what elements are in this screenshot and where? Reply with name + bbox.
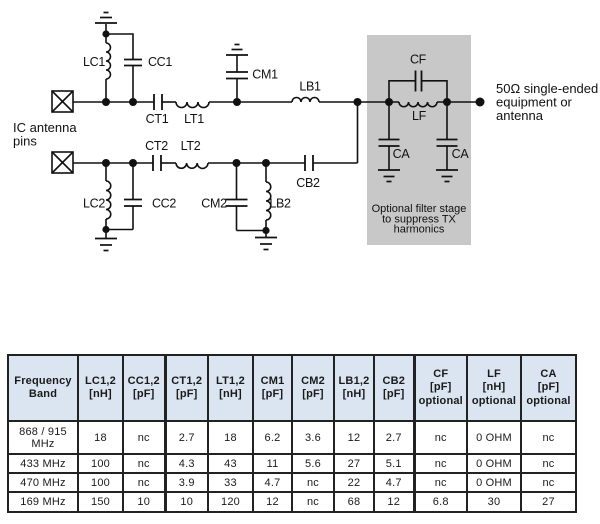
svg-text:CC1: CC1 [148, 55, 172, 69]
wire: upper rail CT1 to LT1 [162, 101, 176, 103]
wire: CF loop right [422, 81, 448, 102]
wire: LC1 top node to CC1 top [106, 34, 133, 60]
node: upper rail LC1 [102, 98, 110, 106]
node: LB2 bottom [262, 227, 269, 234]
wire: CB2 to riser [313, 162, 358, 164]
ground above CM1 [226, 45, 248, 56]
capacitor CA left branch [379, 102, 400, 170]
wire: upper rail LT1 to LB1 [209, 101, 292, 103]
inductor LT2 [176, 163, 208, 168]
inductor LC1 (with stems) [106, 24, 111, 102]
wire: CT2 to LT2 [161, 162, 176, 164]
ground below LB2 [255, 238, 277, 250]
svg-text:CB2: CB2 [296, 176, 320, 190]
svg-text:CC2: CC2 [152, 197, 176, 211]
node: upper rail riser [354, 98, 362, 106]
node: lower rail CM2 [233, 159, 241, 167]
node: LC1 top [102, 30, 109, 37]
ground below LC2 [95, 239, 117, 251]
svg-text:CA: CA [452, 147, 470, 161]
inductor LT1 [176, 102, 209, 108]
wire: lower rail from pin box to CT2 [73, 162, 153, 164]
ground below CA right [436, 170, 458, 182]
wire: CC1 bottom to upper rail [132, 66, 134, 103]
IC antenna pin box 1 [52, 91, 73, 112]
svg-text:CT2: CT2 [145, 139, 168, 153]
inductor LC2 branch [106, 163, 111, 239]
node: filter output [443, 98, 451, 106]
inductor LB2 branch [266, 163, 271, 238]
node: lower rail LC2 [102, 159, 110, 167]
svg-text:LT1: LT1 [184, 112, 204, 126]
capacitor CA right branch [437, 102, 458, 170]
wire: CF loop left [389, 81, 416, 102]
svg-text:pins: pins [13, 134, 37, 149]
svg-text:CA: CA [393, 147, 411, 161]
IC antenna pin box 2 [52, 152, 73, 173]
svg-text:CT1: CT1 [146, 112, 169, 126]
ground below CA left [378, 170, 400, 182]
node: upper rail CC1 [129, 98, 137, 106]
wire: upper rail LF to output terminal [437, 101, 480, 103]
svg-text:LB1: LB1 [299, 80, 321, 94]
node: LC2 bottom [102, 226, 109, 233]
node: upper rail CM1 [233, 98, 241, 106]
wire: CC2 bottom to LC2 bottom node [106, 229, 133, 231]
capacitor CM1 branch [226, 55, 248, 102]
capacitor CC1 [124, 60, 142, 66]
inductor LB1 [292, 98, 319, 103]
svg-text:CM2: CM2 [201, 197, 227, 211]
svg-text:CF: CF [410, 53, 427, 67]
wire: upper rail from pin box to CT1 [73, 101, 154, 103]
node: lower rail CC2 [129, 159, 137, 167]
wire: upper rail LB1 to LF [319, 101, 399, 103]
junction dots [102, 30, 485, 234]
inductor LF [399, 102, 437, 107]
capacitor CB2 [305, 155, 313, 171]
node: lower rail LB2 [262, 159, 270, 167]
svg-text:harmonics: harmonics [394, 224, 445, 236]
svg-text:LB2: LB2 [269, 197, 291, 211]
node: filter input [385, 98, 393, 106]
capacitor CM2 branch [226, 163, 248, 231]
capacitor CT2 [153, 155, 161, 171]
node: output terminal [476, 98, 485, 107]
wire: LT2 to CB2 [208, 162, 305, 164]
wire: riser from lower rail to upper rail [357, 102, 359, 163]
svg-text:antenna: antenna [496, 108, 544, 123]
capacitor CF [416, 71, 422, 92]
svg-text:LT2: LT2 [181, 139, 201, 153]
ground above LC1 [95, 13, 117, 24]
capacitor CT1 [154, 94, 162, 110]
svg-text:LF: LF [412, 109, 427, 123]
capacitor CC2 branch [124, 163, 142, 230]
optional filter stage shaded box [367, 35, 471, 245]
component value table [7, 354, 577, 513]
svg-text:LC2: LC2 [83, 197, 105, 211]
wire: CM2 bottom to LB2 bottom node [237, 230, 267, 232]
svg-text:LC1: LC1 [83, 55, 105, 69]
svg-text:CM1: CM1 [252, 68, 278, 82]
